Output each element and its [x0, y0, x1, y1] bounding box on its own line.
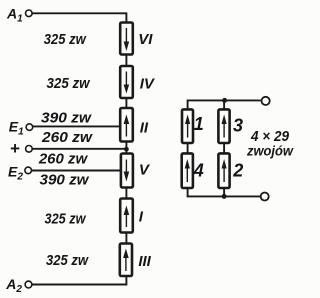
svg-text:zwojów: zwojów	[246, 143, 294, 159]
svg-text:I: I	[139, 209, 144, 226]
svg-text:390 zw: 390 zw	[41, 110, 92, 127]
svg-text:325 zw: 325 zw	[44, 31, 87, 48]
svg-text:260 zw: 260 zw	[41, 129, 93, 146]
svg-text:E1: E1	[9, 119, 24, 138]
svg-text:325 zw: 325 zw	[46, 252, 89, 269]
svg-text:E2: E2	[8, 163, 23, 182]
svg-text:2: 2	[232, 161, 243, 181]
svg-text:+: +	[10, 139, 20, 158]
svg-text:1: 1	[194, 114, 204, 134]
svg-text:A1: A1	[6, 6, 23, 25]
svg-text:II: II	[140, 120, 149, 137]
svg-text:260 zw: 260 zw	[38, 150, 89, 167]
svg-text:V: V	[139, 162, 151, 179]
svg-text:325 zw: 325 zw	[47, 75, 91, 92]
svg-text:A2: A2	[5, 276, 22, 295]
svg-text:3: 3	[233, 116, 243, 136]
svg-text:390 zw: 390 zw	[40, 171, 90, 188]
svg-text:4: 4	[193, 161, 204, 181]
svg-text:IV: IV	[140, 75, 156, 92]
svg-text:III: III	[138, 253, 151, 270]
svg-text:325 zw: 325 zw	[45, 211, 87, 228]
svg-text:VI: VI	[138, 31, 153, 48]
